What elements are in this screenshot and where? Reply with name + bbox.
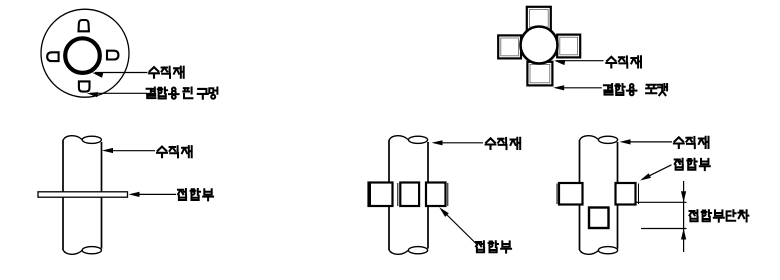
leader line C2 [131,193,176,195]
joint pocket right rect [426,183,446,207]
pipe top break ellipse [408,136,427,143]
arrowhead D1 [432,140,443,145]
joint pocket right thin line [447,183,449,206]
upper-right pocket thin line [638,184,640,205]
label A2 결합용 핀 구멍 [147,88,218,99]
pipe bottom break ellipse [598,247,617,254]
joint pocket middle square [589,208,609,229]
pocket left inner [501,38,519,56]
arrowhead B1 [554,58,566,65]
pocket top inner [529,9,548,27]
joint pocket upper-right rect [616,183,636,205]
pipe left wall [579,140,581,250]
pocket right outer [557,35,580,58]
pipe top break curve [580,136,599,140]
label D1 수직재 [486,138,521,149]
pipe bottom break curve [63,250,82,254]
pipe right wall [617,142,619,249]
pipe top break curve [389,136,408,140]
arrowhead C1 [102,148,113,153]
pipe left wall [388,140,390,250]
dimension upper extension line [636,201,687,203]
dimension arrow up [681,229,686,240]
pipe right wall [101,142,103,249]
dimension vertical line [683,181,685,252]
pocket bottom outer [527,62,552,86]
label E1 수직재 [674,137,709,148]
leader line D1 [434,142,483,144]
leader line B2 [557,87,602,89]
joint pocket left thick edge [368,182,371,207]
joint pocket middle rect [400,183,419,207]
label B2 결합용 포켓 [604,84,667,95]
vertical member circle [521,27,558,64]
dimension arrow down [681,191,686,202]
joint pocket middle thin line [397,183,399,206]
pin hole left [47,52,58,61]
pipe bottom break ellipse [82,247,101,254]
label A1 수직재 [149,67,184,78]
pipe top break ellipse [598,136,617,143]
leader line E2 diagonal [643,165,672,179]
arrowhead B2 [553,85,564,90]
pin hole top [79,20,89,31]
upper-left pocket thin line [556,184,558,205]
pipe bottom break curve [389,250,408,254]
pocket right inner [560,37,578,55]
leader line A1 to ring [95,72,148,74]
arrowhead C2 [129,192,140,197]
joint pocket upper-left rect [559,183,583,205]
pipe left wall [62,140,64,250]
arrowhead A1 [91,70,103,78]
leader line B1 [556,60,604,62]
pipe right wall [427,142,429,249]
pin hole bottom [79,81,90,91]
joint plate bar [38,192,128,197]
pocket left outer [498,35,521,58]
label C1 수직재 [157,146,192,157]
label B1 수직재 [606,56,641,67]
leader line E1 [624,141,673,143]
leader line A2 to pin hole [90,92,147,94]
leader line C1 [105,150,155,152]
pin hole right [107,51,118,60]
joint pocket left rect [369,183,393,207]
pocket bottom inner [530,64,550,82]
arrowhead A2 [86,91,98,98]
label C2 접합부 [178,189,213,200]
pipe bottom break curve [580,250,599,254]
arrowhead E2 [639,173,651,183]
dimension lower extension line [641,228,687,230]
pipe top break curve [63,136,82,140]
arrowhead D2 [437,205,448,216]
arrowhead E1 [620,139,631,144]
pocket top outer [527,7,551,30]
pipe bottom break ellipse [408,247,427,254]
leader line D2 diagonal [442,210,479,246]
label E2 접합부 [675,159,710,170]
flange outer circle [41,9,129,97]
pipe top break ellipse [82,136,101,143]
label D2 접합부 [476,241,511,252]
vertical member ring (thick inner circle) [65,38,100,73]
label E3 접합부단차 [690,210,749,221]
